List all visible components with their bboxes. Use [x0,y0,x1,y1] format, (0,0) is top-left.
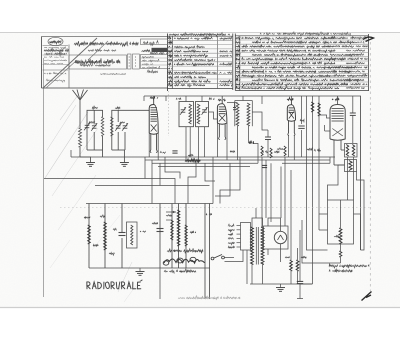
resistor R9 [339,244,342,263]
field coil R8 [339,200,342,244]
mains switch [211,255,236,262]
mixer tube V1 label [150,96,159,100]
detector stage wires [252,96,268,157]
faint pencil note bottom [178,296,240,300]
second long horizontal [95,185,210,187]
audio labels [84,213,212,255]
detector tube V3 label [287,98,293,101]
variable capacitor C3 [115,123,121,131]
audio section verticals [89,204,186,269]
handwritten note (tuning range) [167,248,203,253]
resistor R6 [171,220,173,240]
model number box [141,39,168,45]
power ground bus [250,283,312,285]
T3 secondary winding [247,103,250,126]
label above T1 [176,98,182,100]
T1/T2 wires [186,96,205,163]
coupling capacitor C5 [265,130,271,157]
T3 primary winding [236,103,239,126]
IF tube V2 [217,99,227,139]
T4 primary winding [346,145,348,157]
parts table left rows and entries [168,33,233,87]
power transformer T5 primary [251,227,254,265]
dial cord chain [163,257,204,265]
cathode wires V3 [301,96,303,157]
main bus 2 [145,159,330,161]
pen swoosh top right corner [363,37,374,41]
resistor R7 [185,225,187,246]
anode coupling rail V2-T3 [227,102,238,104]
V2 envelope side wires down [217,123,227,160]
faint dashed alignment line [60,207,370,209]
T2 trimmer [202,107,208,115]
small data table [141,52,168,70]
2nd IF transformer T3 frame [235,101,253,127]
label near C3 [120,122,126,123]
RF coil L3 [111,117,114,136]
handwritten annotation over left column [44,48,69,57]
output transformer T4 [345,144,358,158]
grid rail to mixer [125,109,149,111]
T3 wires [238,96,249,160]
resistor R3 on bus [185,159,200,162]
signature box with scribble [69,55,127,69]
capacitor C9 box [127,222,138,248]
small labels above bus [160,151,268,154]
note right bottom 2 [329,269,352,272]
T1 trimmer [180,107,186,115]
AVC wires [215,157,240,204]
wire to ground (antenna circuit) [80,157,91,163]
label above T2 [209,98,216,100]
ground stub audio [136,268,145,275]
T5 core [256,227,258,265]
loudspeaker [334,150,357,172]
main bus 3 [152,162,258,164]
grid wire to V4 [319,115,330,118]
two narrow cells with dots [128,54,140,69]
screen resistor R1 [311,102,314,112]
capacitor C8 [119,233,126,236]
V1 envelope side wires down [149,133,158,160]
header handwritten title [74,41,160,52]
B+ distribution box [328,200,354,244]
detector tube V3 [287,100,295,135]
faint dashed vertical from table corner [168,91,170,136]
parts table right rows and dense entries [235,32,369,90]
small note under center block [100,70,159,75]
coupling cap on rail [233,103,236,110]
cap labels [285,256,306,258]
sheet left fold line [43,58,45,297]
rail stubs [144,96,166,101]
crease diagonal marks [45,95,140,302]
bypass capacitor C6 [298,126,304,128]
V1 anode to top rail [153,96,155,100]
parts table left frame [168,34,233,91]
T5 secondary [261,227,264,265]
step wires below IF cans [165,157,215,204]
T2 winding [197,104,200,124]
antenna lead wire [79,147,81,157]
decoupling resistor R2 [318,103,320,116]
small cap right of power [297,230,303,299]
transformer bottom wires [236,250,263,284]
small capacitor on bus [172,151,177,153]
rectifier wires [268,218,281,262]
bus verticals [145,157,330,204]
speaker return wire down [159,268,161,299]
right outer wires [340,96,361,250]
grid wire V2 [209,112,218,119]
dashed right sheet edge [369,42,371,291]
long horizontal to left fold [44,179,175,204]
arrow to volume pot [166,211,176,220]
parts table right frame [235,34,368,92]
IF tube V2 label [218,99,225,101]
RF coil L2 [101,117,104,136]
V4 anode stub [337,96,339,100]
label R8 [334,235,339,237]
STD label and black filled cell [142,48,168,52]
scan sheet top edge [0,32,400,34]
ground symbol antenna [86,163,95,167]
IF transformer T2 box [196,102,209,127]
ground tuned circuit 2 [123,150,125,163]
power ground symbol [276,284,285,291]
main bus 1 [71,156,335,158]
voltage tap strip [228,223,251,251]
oscillator transformer T1 box [179,102,194,127]
main bus 4 [158,166,250,168]
title block company text lines [43,46,69,83]
T1 winding [189,104,192,124]
antenna [73,90,88,129]
labels right column [277,120,321,152]
mixer tube V1 [149,100,158,153]
label R3 [188,154,195,156]
bus1 left drop [70,150,72,157]
big diagonal pen slash over left column [43,38,108,88]
audio section top rail [86,203,213,205]
mains cord verticals [205,157,213,299]
resistor R4 [88,225,91,244]
right wires [300,157,361,284]
output tube V4 label [332,98,339,100]
volume potentiometer [177,210,180,246]
T5 top wires [252,208,263,227]
capacitor C10 [157,229,164,232]
label near C1 [89,122,95,125]
output tube V4 [330,100,345,165]
detector coupling resistor (horizontal) [249,141,256,144]
filter capacitor C11 [290,252,293,284]
label above tuned circuit 2 [115,107,120,109]
top supply rail left segment [144,95,239,97]
V3 leg wires down [289,136,295,161]
V2 anode rail [221,96,223,99]
variable capacitor C1 [84,123,90,131]
variable capacitor C4 [122,123,128,131]
note right bottom 1 [329,264,369,269]
mid-right resistors [261,146,286,168]
speaker wires [328,165,365,250]
trimmer C2 [91,123,97,131]
tuned circuit 1 frame [87,110,103,150]
top rail right segment [239,95,340,97]
B+ vertical wires [262,157,291,252]
tuned circuit 2 frame [112,110,125,150]
rectifier tube V5 [274,226,286,244]
manufacturer stamp oval [48,37,63,45]
audio bottom rail [89,267,210,269]
resistor R5 [104,222,107,250]
rectifier enclosure [264,226,289,249]
filter capacitor C12 [296,248,299,284]
vertical feed wires right [307,96,331,245]
handwritten note 2 [164,269,196,274]
pen slash bottom right [362,292,372,301]
antenna coupling coil L1 [79,128,82,147]
coupling capacitor C7 [350,106,356,122]
V3 anode wire [290,96,292,100]
label above tuned circuit 1 [92,106,97,110]
T4 secondary winding [352,145,354,157]
main bus 3b [282,162,330,164]
wire L2 to bus [102,136,104,157]
scan sheet bottom edge [0,307,400,309]
handwritten RADIORURALE caption [87,280,142,289]
title block frame [42,34,168,92]
